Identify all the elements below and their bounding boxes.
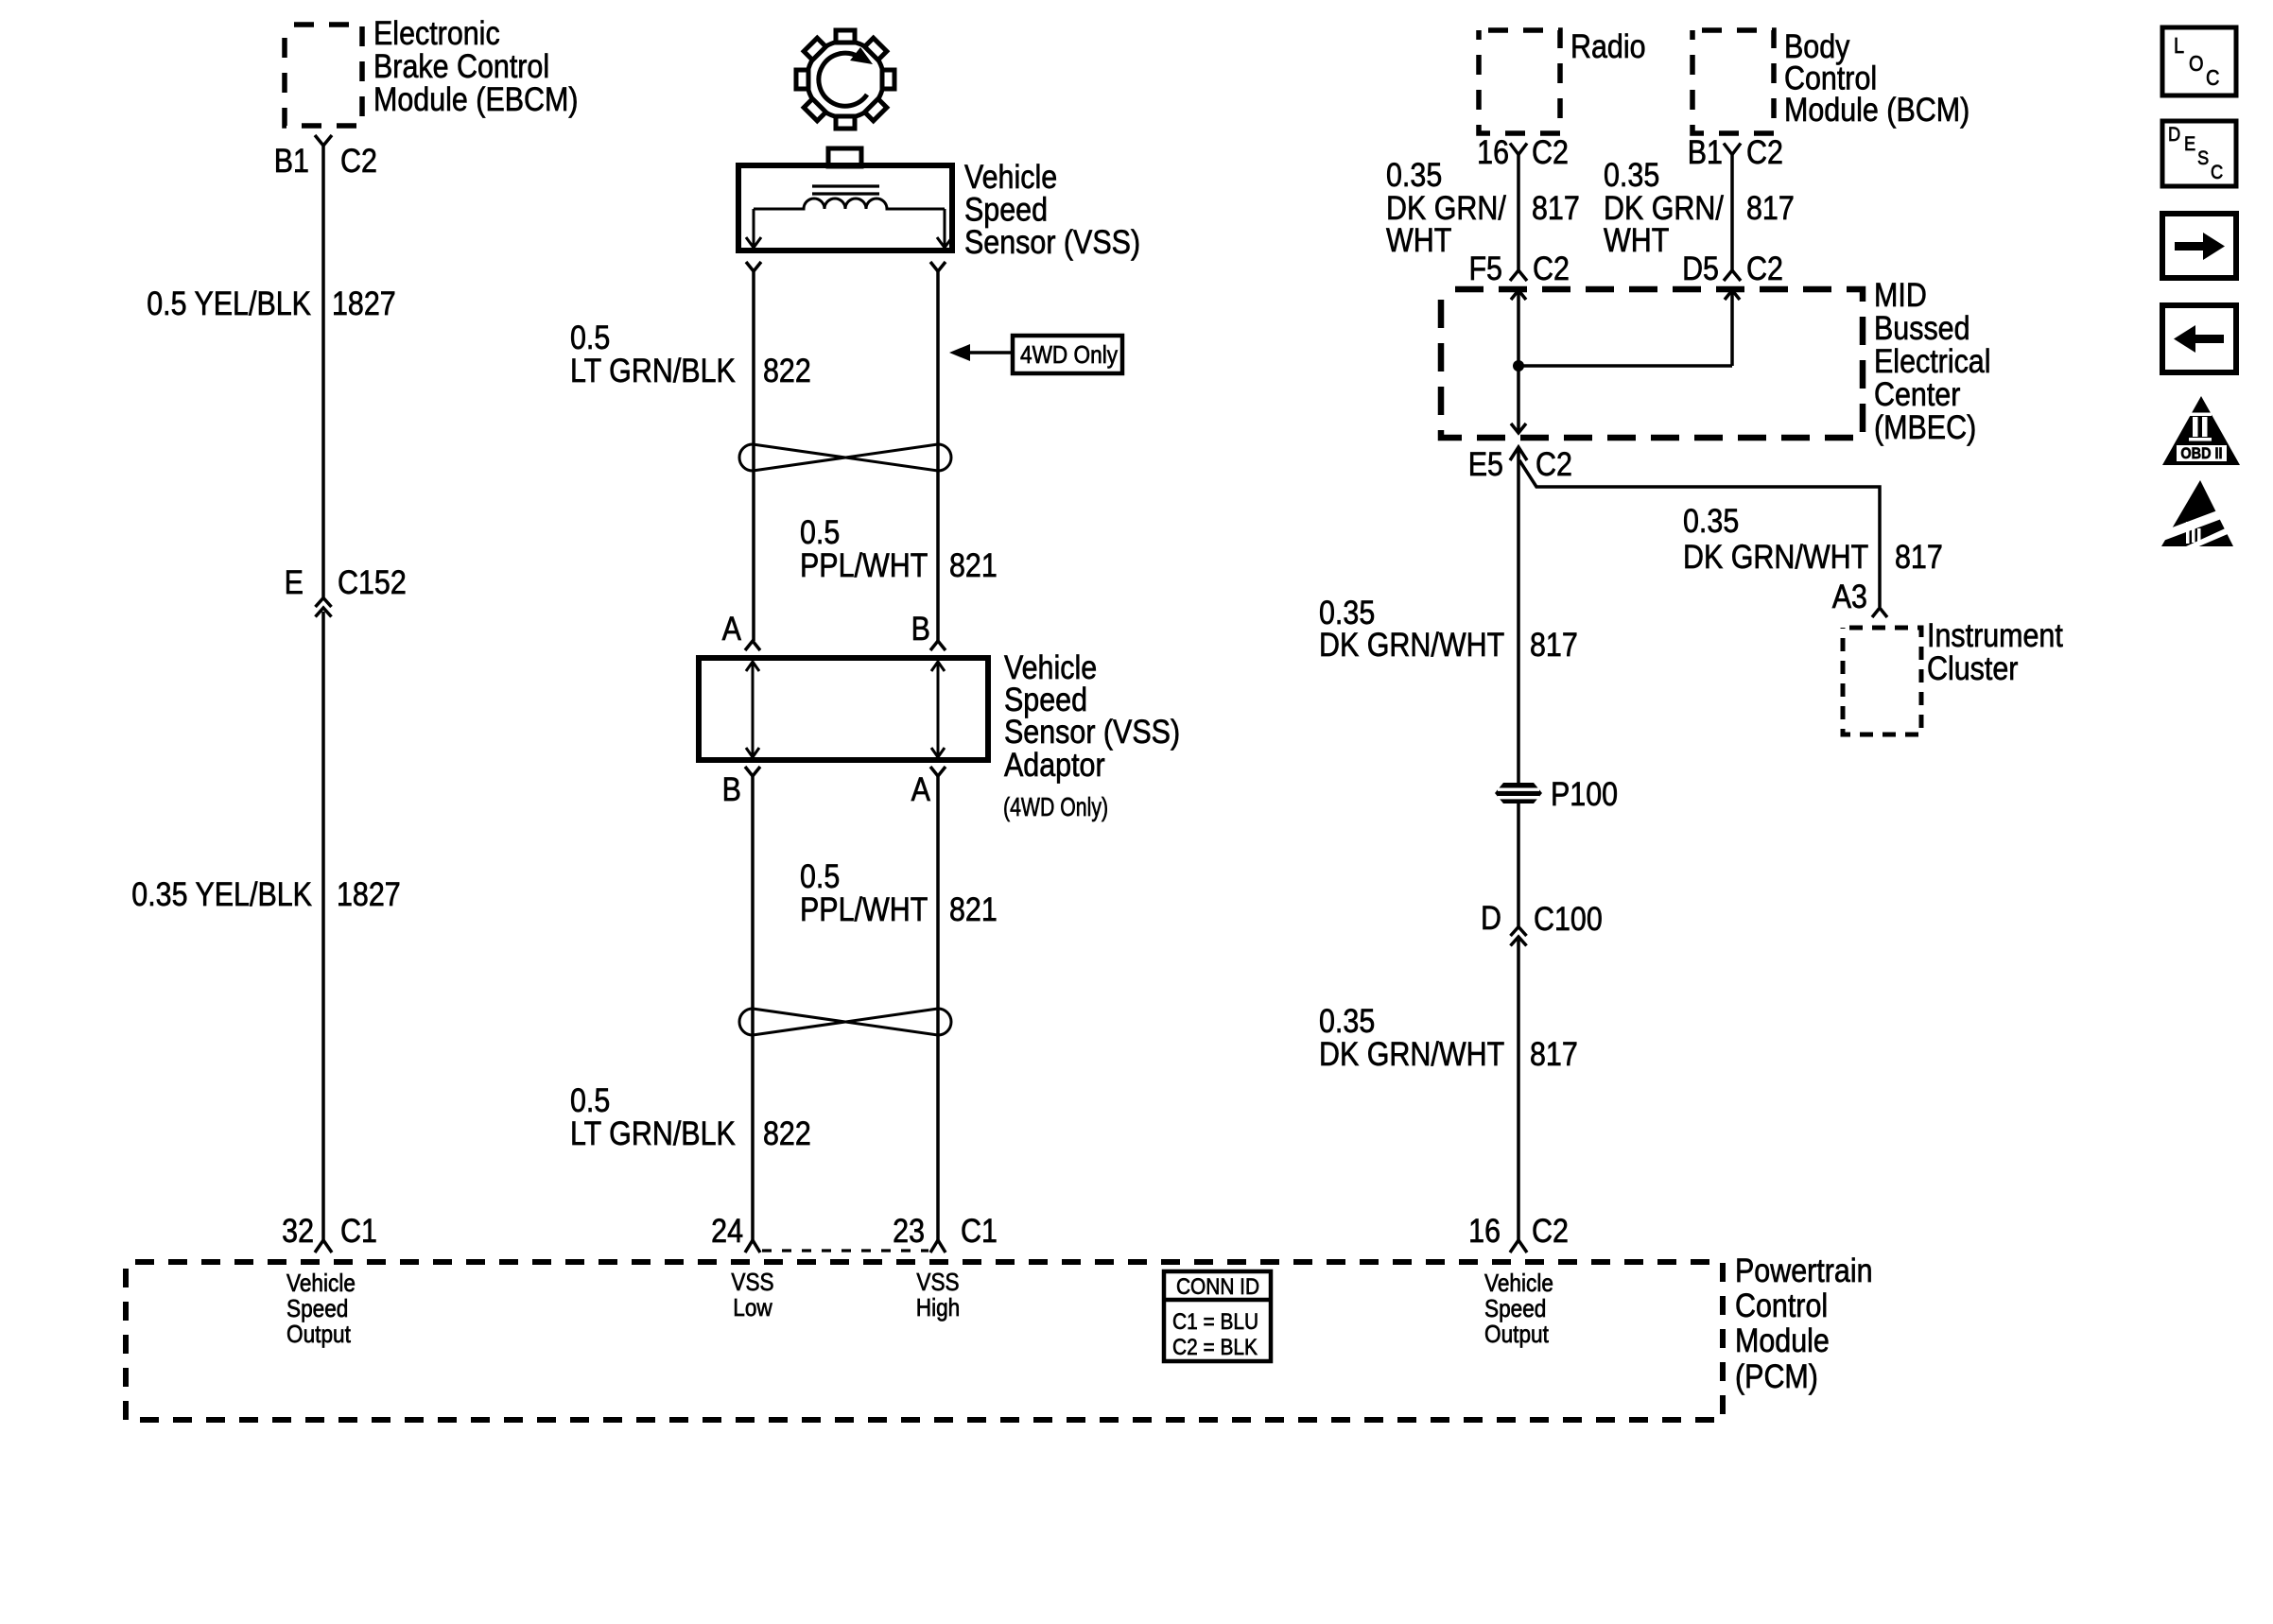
- svg-text:E: E: [2184, 133, 2195, 155]
- svg-text:0.35: 0.35: [1319, 1002, 1375, 1039]
- sidebar icon back arrow: [2162, 305, 2236, 372]
- svg-text:E: E: [285, 563, 304, 600]
- VSS internal lead left with arrow: [746, 209, 761, 248]
- svg-text:0.5 YEL/BLK: 0.5 YEL/BLK: [147, 285, 311, 321]
- svg-text:0.5: 0.5: [570, 1081, 610, 1118]
- wire 1827 lower segment (C152 to PCM pin 32): [321, 612, 325, 1240]
- label Body Control Module (BCM): [1784, 27, 1969, 128]
- svg-text:0.5: 0.5: [800, 513, 840, 550]
- label Vehicle Speed Sensor (VSS) Adaptor (4WD Only): [1003, 648, 1180, 822]
- connector fork at EBCM pin B1 C2: [315, 135, 332, 146]
- svg-text:B1: B1: [274, 142, 309, 179]
- MBEC internal wire from D5 with arrow: [1725, 290, 1740, 366]
- twisted pair symbol lower: [739, 1009, 951, 1035]
- svg-text:1827: 1827: [337, 875, 401, 912]
- connector fork at PCM pin 24: [745, 1240, 760, 1253]
- label MID Bussed Electrical Center (MBEC): [1874, 276, 1990, 445]
- svg-text:C2: C2: [340, 142, 377, 179]
- twisted pair symbol upper: [739, 444, 951, 471]
- connector fork at BCM pin B1 C2: [1724, 144, 1741, 155]
- VSS pickup coil: [754, 199, 945, 209]
- value label 0.5 PPL/WHT lower: [800, 857, 928, 927]
- MBEC internal bus wire horizontal: [1518, 364, 1732, 368]
- value label 0.35 DK GRN/WHT lower: [1319, 1002, 1504, 1072]
- svg-text:0.5: 0.5: [570, 319, 610, 355]
- label Electronic Brake Control Module (EBCM): [373, 14, 579, 117]
- svg-text:C152: C152: [338, 563, 407, 600]
- connector fork at MBEC pin E5 C2: [1510, 447, 1527, 460]
- svg-text:O: O: [2189, 51, 2204, 77]
- sidebar icon LOC: [2162, 27, 2236, 95]
- wire 817 radio to MBEC: [1517, 154, 1520, 270]
- PCM pin function label VSS Low: [731, 1270, 773, 1322]
- module PCM dashed box: [126, 1262, 1723, 1420]
- svg-text:B: B: [722, 770, 741, 807]
- svg-text:817: 817: [1746, 189, 1795, 226]
- svg-text:Output: Output: [1484, 1322, 1549, 1349]
- svg-text:Cluster: Cluster: [1927, 649, 2019, 686]
- wire 817 branch to instrument cluster: [1519, 460, 1880, 607]
- svg-text:Electrical: Electrical: [1874, 342, 1990, 379]
- label Vehicle Speed Sensor (VSS): [964, 158, 1140, 260]
- VSS internal lead right with arrow: [937, 209, 952, 248]
- svg-text:Speed: Speed: [286, 1296, 348, 1323]
- connector fork adaptor bottom right: [930, 767, 946, 776]
- value label 0.5 LT GRN/BLK lower: [570, 1081, 736, 1151]
- svg-text:A: A: [722, 610, 741, 647]
- connector C152 inline chevrons: [316, 598, 332, 617]
- sidebar icon DESC: [2162, 121, 2236, 186]
- callout 4WD Only with arrow: [949, 336, 1122, 373]
- svg-text:4WD Only: 4WD Only: [1020, 342, 1119, 370]
- svg-text:Sensor (VSS): Sensor (VSS): [1004, 713, 1180, 750]
- connector fork at MBEC pin D5 C2: [1724, 270, 1741, 281]
- module BCM dashed box: [1692, 30, 1774, 133]
- svg-text:Vehicle: Vehicle: [286, 1270, 356, 1298]
- value label 0.35 DK GRN/WHT branch: [1683, 502, 1868, 575]
- svg-text:Center: Center: [1874, 375, 1960, 412]
- svg-text:Vehicle: Vehicle: [1484, 1270, 1553, 1298]
- svg-text:VSS: VSS: [731, 1270, 773, 1297]
- svg-text:Speed: Speed: [1484, 1296, 1546, 1323]
- connector fork at PCM pin 32: [315, 1240, 332, 1253]
- svg-text:Module (BCM): Module (BCM): [1784, 91, 1969, 128]
- module Radio dashed box: [1479, 30, 1560, 133]
- svg-text:DK GRN/WHT: DK GRN/WHT: [1319, 1035, 1504, 1072]
- connector C1 dashed link between pins 24 and 23: [762, 1249, 928, 1252]
- value label 0.35 DK GRN/ WHT left: [1386, 156, 1507, 258]
- reluctor gear wheel icon: [796, 30, 894, 129]
- sidebar icon OBD II triangle: [2162, 396, 2240, 465]
- value label 0.35 DK GRN/WHT main: [1319, 594, 1504, 663]
- svg-text:32: 32: [282, 1212, 314, 1249]
- adaptor internal through-path left: [746, 662, 759, 757]
- svg-text:Brake Control: Brake Control: [373, 47, 549, 84]
- PCM pin function label VSS High: [916, 1270, 961, 1322]
- sidebar icon forward arrow: [2162, 214, 2236, 278]
- MBEC internal wire from F5 with arrow: [1511, 290, 1526, 366]
- svg-text:MID: MID: [1874, 276, 1927, 313]
- svg-text:Radio: Radio: [1570, 27, 1646, 64]
- svg-text:Instrument: Instrument: [1927, 616, 2063, 653]
- adaptor internal through-path right: [931, 662, 945, 757]
- svg-text:16: 16: [1468, 1212, 1501, 1249]
- svg-text:F5: F5: [1468, 250, 1502, 286]
- component box Vehicle Speed Sensor VSS: [738, 165, 952, 251]
- wire 822 lower segment VSS low: [751, 775, 755, 1240]
- module MBEC dashed box: [1441, 289, 1863, 438]
- connector C100 inline chevrons: [1511, 927, 1527, 946]
- svg-text:CONN ID: CONN ID: [1176, 1274, 1259, 1300]
- module EBCM dashed box: [285, 25, 362, 126]
- connector fork at PCM pin 23: [930, 1240, 946, 1253]
- svg-text:WHT: WHT: [1604, 221, 1669, 258]
- svg-text:PPL/WHT: PPL/WHT: [800, 546, 928, 583]
- svg-text:C: C: [2206, 65, 2219, 91]
- label Instrument Cluster: [1927, 616, 2063, 686]
- svg-text:24: 24: [711, 1212, 743, 1249]
- svg-text:Low: Low: [733, 1295, 772, 1322]
- connector fork at Radio pin 16 C2: [1510, 144, 1527, 155]
- wire 821 upper segment VSS high: [936, 270, 940, 641]
- wire 821 lower segment VSS high: [936, 775, 940, 1240]
- svg-text:0.35: 0.35: [1604, 156, 1659, 193]
- connector fork adaptor top right: [930, 641, 946, 650]
- svg-text:16: 16: [1477, 133, 1509, 170]
- VSS core lines: [812, 186, 879, 194]
- connector fork below VSS pin left: [746, 262, 761, 271]
- wire 1827 upper segment (EBCM to C152): [321, 146, 325, 597]
- svg-text:PPL/WHT: PPL/WHT: [800, 890, 928, 927]
- svg-text:817: 817: [1530, 1035, 1578, 1072]
- connector fork adaptor top left: [745, 641, 760, 650]
- svg-text:E5: E5: [1468, 445, 1503, 482]
- svg-text:Module (EBCM): Module (EBCM): [373, 80, 579, 117]
- svg-text:VSS: VSS: [916, 1270, 959, 1297]
- splice pass-through P100 symbol: [1495, 783, 1542, 803]
- svg-text:Electronic: Electronic: [373, 14, 500, 51]
- component box VSS Adaptor: [699, 658, 988, 760]
- module Instrument Cluster dashed box: [1843, 628, 1921, 734]
- connector fork at PCM pin 16 C2: [1510, 1240, 1527, 1253]
- svg-text:L: L: [2174, 33, 2184, 59]
- connector fork at instrument cluster pin A3: [1872, 608, 1887, 617]
- svg-text:C100: C100: [1534, 900, 1603, 937]
- svg-text:C1: C1: [961, 1212, 998, 1249]
- svg-text:DK GRN/WHT: DK GRN/WHT: [1683, 538, 1868, 575]
- svg-text:LT GRN/BLK: LT GRN/BLK: [570, 352, 736, 389]
- svg-text:822: 822: [763, 1114, 811, 1151]
- sidebar icon ESD warning triangle: [2160, 480, 2234, 548]
- VSS mounting tab: [828, 148, 861, 166]
- connector fork at MBEC pin F5 C2: [1510, 270, 1527, 281]
- value label 0.5 LT GRN/BLK upper: [570, 319, 736, 389]
- svg-text:822: 822: [763, 352, 811, 389]
- wire 822 upper segment VSS low: [752, 270, 755, 641]
- svg-text:P100: P100: [1551, 775, 1618, 812]
- svg-text:A: A: [911, 770, 930, 807]
- svg-text:817: 817: [1532, 189, 1580, 226]
- PCM pin function label Vehicle Speed Output right: [1484, 1270, 1553, 1349]
- svg-text:S: S: [2197, 147, 2209, 169]
- svg-text:C1 = BLU: C1 = BLU: [1172, 1309, 1258, 1335]
- svg-text:D: D: [1481, 899, 1501, 936]
- svg-text:817: 817: [1530, 626, 1578, 663]
- svg-text:C1: C1: [340, 1212, 377, 1249]
- connector fork below VSS pin right: [930, 262, 946, 271]
- CONN ID legend table: [1164, 1271, 1271, 1361]
- wire 817 C100 to PCM: [1517, 940, 1520, 1240]
- svg-text:B: B: [911, 610, 930, 647]
- value label 0.5 PPL/WHT upper: [800, 513, 928, 583]
- svg-text:0.35: 0.35: [1386, 156, 1442, 193]
- label Powertrain Control Module (PCM): [1735, 1252, 1873, 1394]
- svg-text:1827: 1827: [332, 285, 396, 321]
- wire 817 P100 to C100: [1517, 803, 1520, 926]
- svg-text:(PCM): (PCM): [1735, 1357, 1818, 1394]
- svg-text:C2: C2: [1532, 1212, 1569, 1249]
- svg-text:D5: D5: [1682, 250, 1719, 286]
- svg-text:0.35 YEL/BLK: 0.35 YEL/BLK: [131, 875, 312, 912]
- svg-text:C2: C2: [1533, 250, 1570, 286]
- svg-text:C2: C2: [1532, 133, 1569, 170]
- svg-text:0.5: 0.5: [800, 857, 840, 894]
- svg-text:WHT: WHT: [1386, 221, 1451, 258]
- connector fork adaptor bottom left: [745, 767, 760, 776]
- svg-text:C2: C2: [1536, 445, 1572, 482]
- svg-text:LT GRN/BLK: LT GRN/BLK: [570, 1114, 736, 1151]
- svg-text:(MBEC): (MBEC): [1874, 408, 1976, 445]
- svg-text:C: C: [2211, 162, 2223, 183]
- svg-text:Output: Output: [286, 1322, 351, 1349]
- svg-text:23: 23: [893, 1212, 925, 1249]
- PCM pin function label Vehicle Speed Output left: [286, 1270, 356, 1349]
- MBEC internal wire to E5 with arrow: [1511, 366, 1526, 433]
- svg-text:821: 821: [949, 890, 998, 927]
- svg-text:(4WD Only): (4WD Only): [1003, 792, 1108, 822]
- svg-text:C2: C2: [1746, 133, 1783, 170]
- wire 817 E5 to P100: [1517, 447, 1520, 783]
- svg-text:B1: B1: [1688, 133, 1723, 170]
- svg-text:817: 817: [1895, 538, 1943, 575]
- svg-text:C2 = BLK: C2 = BLK: [1172, 1335, 1258, 1360]
- svg-text:821: 821: [949, 546, 998, 583]
- svg-text:C2: C2: [1746, 250, 1783, 286]
- svg-text:Adaptor: Adaptor: [1004, 746, 1105, 783]
- wire 817 BCM to MBEC: [1730, 154, 1734, 270]
- svg-text:0.35: 0.35: [1683, 502, 1739, 539]
- svg-text:Sensor (VSS): Sensor (VSS): [964, 223, 1140, 260]
- svg-text:High: High: [916, 1295, 961, 1322]
- svg-text:D: D: [2168, 124, 2180, 146]
- svg-text:A3: A3: [1832, 578, 1867, 614]
- svg-text:Control: Control: [1735, 1287, 1828, 1323]
- svg-text:Powertrain: Powertrain: [1735, 1252, 1873, 1288]
- svg-text:DK GRN/WHT: DK GRN/WHT: [1319, 626, 1504, 663]
- svg-text:Module: Module: [1735, 1322, 1830, 1358]
- value label 0.35 DK GRN/ WHT bcm: [1604, 156, 1725, 258]
- svg-text:OBD II: OBD II: [2180, 445, 2222, 462]
- junction dot MBEC bus: [1513, 360, 1524, 371]
- svg-text:Bussed: Bussed: [1874, 309, 1970, 346]
